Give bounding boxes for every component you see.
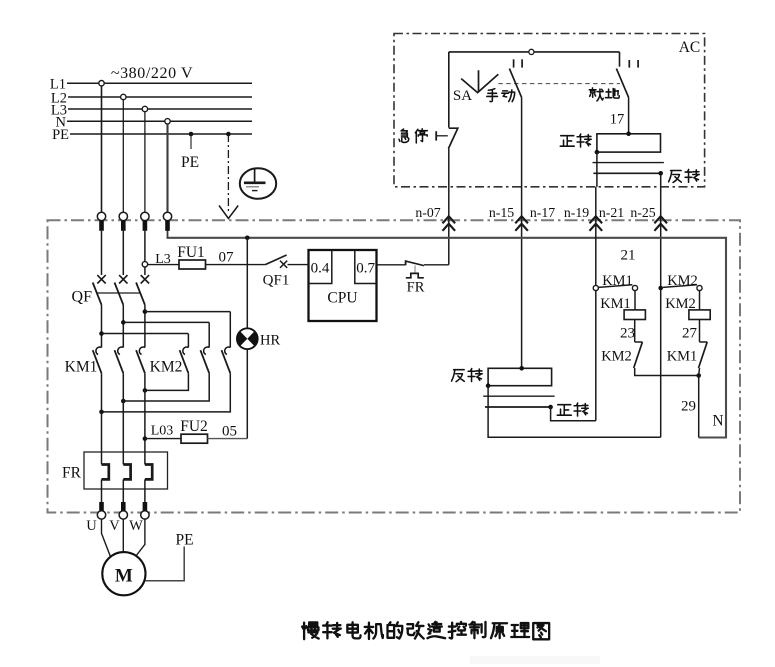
fuse FU1 [179,260,206,269]
wire KM2a out to phase3 [145,373,189,390]
wire 17 [628,97,630,133]
thermal contact FR blade [406,261,424,265]
label 反转 (lower) [452,370,465,382]
svg-text:W: W [129,518,143,534]
svg-text:~380/220 V: ~380/220 V [111,65,193,82]
wire PE bus [70,133,252,135]
wire KM2b out to phase2 [123,373,209,401]
svg-text:KM2: KM2 [665,296,696,312]
wire coil KM1 to 23 [634,320,636,343]
contact 就地 corner wire [619,52,621,67]
linkage SA dashed [498,83,620,85]
svg-text:QF: QF [72,289,93,306]
svg-text:SA: SA [453,88,472,104]
wire 29 down [698,376,700,438]
svg-text:KM2: KM2 [601,349,632,365]
svg-text:FU1: FU1 [177,244,205,261]
svg-text:L03: L03 [151,424,174,439]
wire N to HR lamp [246,238,248,328]
svg-text:n-21: n-21 [599,205,624,220]
control box AC (dash-dot) [394,34,705,187]
wire L03 to FU2 [145,438,181,440]
lamp HR [237,328,258,349]
node n-15 to 反转 box [519,366,524,371]
svg-text:AC: AC [679,39,701,56]
svg-text:FU2: FU2 [180,418,208,435]
svg-text:27: 27 [682,326,698,342]
svg-text:0.7: 0.7 [356,261,375,277]
relay KM1 aux contact [593,285,598,290]
svg-text:n-25: n-25 [630,205,655,220]
emergency stop 急停 actuator [435,131,437,140]
title 慢转电机的改造控制原理图 [302,622,318,639]
wire box drop n-21 [596,152,598,187]
CPU output cell 0.7 [355,250,377,284]
svg-text:FR: FR [62,465,82,482]
wire L3 to FU1 [148,264,179,266]
node box bottom-left [595,150,600,155]
drum contact 反转 coil box [488,368,551,385]
terminal chevron n-07 [443,216,456,231]
wire phase1 to FR box [101,373,103,452]
svg-text:CPU: CPU [327,290,357,307]
svg-text:KM2: KM2 [150,359,183,376]
node L03 tap [143,436,148,441]
node 17 to box [626,132,631,137]
CPU U1 box [309,250,377,321]
terminals at top boundary [97,212,105,220]
svg-text:U: U [86,518,97,534]
thermal overload FR heaters [101,452,103,465]
wire QF1 to CPU [288,264,309,266]
wire L2 drop [122,100,124,213]
node N tap [165,119,170,124]
svg-text:PE: PE [52,127,69,143]
svg-text:21: 21 [621,248,636,264]
contactor KM2 main contact b [208,322,210,347]
breaker QF1 cross [280,261,287,268]
fuse FU2 [181,434,208,443]
wire manual drop n-15 [521,97,523,368]
wire aux to coil KM1 [634,291,636,310]
svg-text:n-15: n-15 [489,205,514,220]
relay coil KM1 [624,310,645,320]
wire coil KM2 to 27 [699,320,701,343]
wire W to motor [136,519,145,555]
drum contact 正转 bar upper [483,395,554,397]
earth symbol [240,168,276,199]
wire phase3 to FR box [144,373,146,452]
svg-text:05: 05 [222,424,237,440]
node L1 tap [99,81,104,86]
contact 就地 fixed ticks [628,60,630,68]
label 正转 (AC) [560,136,574,147]
wire N control bus [167,238,727,438]
contact 手动 blade [509,69,521,98]
drum contact 反转 (AC) bar lower [593,172,661,174]
node L3 tap for FU1 [142,262,147,267]
wire aux to coil KM2 [699,291,701,310]
svg-text:n-19: n-19 [564,205,589,220]
svg-text:PE: PE [175,532,193,549]
emergency stop 急停 blade [448,128,457,148]
faint watermark [470,656,600,664]
svg-text:17: 17 [610,112,625,128]
svg-text:0.4: 0.4 [311,261,330,277]
wire L3 drop [144,112,146,213]
contactor KM2 main contact c [229,312,231,348]
terminal chevron n-15 [515,216,528,231]
wire PE stub [190,134,192,149]
label 正转 (lower) [557,405,571,416]
svg-text:n-17: n-17 [530,205,555,220]
wire N corner from drop [167,212,169,238]
wire motor PE [145,547,184,581]
node on AC rail [529,49,534,54]
wire 正转 to n-21 [551,407,596,421]
svg-text:n-07: n-07 [415,205,440,220]
emergency stop 急停 wire top [448,52,450,128]
terminal chevron n-25 [654,216,667,231]
svg-text:V: V [109,518,120,534]
svg-text:FR: FR [407,280,425,296]
wire jumper L2 to KM2b [121,320,126,325]
wire KM1NC join [698,368,701,376]
wire 反转 to n-25 rail [488,386,661,438]
wire N bus top [67,120,252,122]
node PE tap 2 [226,132,231,137]
selector switch SA handle [461,70,498,92]
wire bar drop n-25 [660,173,662,437]
wire n-21 drop [595,187,597,421]
wire FR to n-07 [424,264,449,266]
node n-25 to aux KM2 [658,286,663,291]
wire KM2NC out [635,368,699,376]
wire L3 bus [68,108,252,110]
wire FU2 to HR [208,438,248,440]
node L3 tap [142,106,147,111]
svg-text:N: N [712,413,723,430]
svg-text:KM1: KM1 [600,296,631,312]
thermal contact FR stem [414,266,416,274]
wire KM2c out to phase1 [102,373,231,412]
contactor KM2 main contact a [187,334,189,348]
wire CPU to FR [377,264,406,266]
svg-text:KM1: KM1 [65,359,98,376]
label 反转 (AC) [669,171,682,183]
svg-text:29: 29 [681,399,696,415]
node PE tap 1 [189,132,194,137]
svg-text:KM2: KM2 [667,273,698,289]
breaker QF1 blade [265,255,286,265]
wire U to motor [102,519,111,556]
CPU input cell 0.4 [309,250,332,284]
wire L1 drop [101,86,103,213]
enclosure boundary (dash-dot box) [48,220,741,512]
thermal contact FR tick [405,260,407,265]
terminal chevron n-21 [590,216,603,231]
contact 手动 fixed ticks [513,59,515,67]
label 手动 (manual) [487,89,498,102]
drum contact 反转 (AC) bar upper [593,162,664,164]
wire PE dash-dot drop [227,134,229,214]
label 就地 (local) [589,88,603,101]
contact KM1 NC [700,341,708,343]
wire jumper L1 to KM2a [99,331,104,336]
wire emergency drop n-07 [448,149,450,265]
thermal contact FR element [406,273,424,277]
svg-text:07: 07 [219,250,235,266]
node N to HR [245,236,250,241]
wire N drop [166,124,168,212]
drum contact 正转 (AC) coil box [597,134,661,152]
svg-text:KM1: KM1 [667,349,698,365]
wire L1 bus [67,82,252,84]
drum contact 正转 bar lower [485,406,551,408]
wire phase2 to FR box [122,373,124,452]
node 正转 bar [548,405,553,410]
wire FU1 to QF1 [206,264,266,266]
relay coil KM2 [689,310,710,320]
svg-text:HR: HR [260,333,280,349]
arrow PE to enclosure [219,206,238,219]
contact KM2 NC [635,341,643,343]
wire AC top rail [449,51,620,53]
node branch join 29 [696,373,701,378]
svg-text:KM1: KM1 [602,273,633,289]
node 反转 box bottom-left [486,383,491,388]
thermal overload FR box [84,452,168,489]
wire V to motor [122,519,124,552]
terminals at bottom boundary [99,502,104,512]
contact 就地 blade [616,69,628,98]
svg-text:23: 23 [620,326,635,342]
svg-text:M: M [115,566,133,587]
breaker QF poles [101,231,103,275]
wire HR to FU2 [246,349,248,439]
relay KM2 aux contact [663,285,697,288]
svg-text:QF1: QF1 [263,273,290,289]
wire jumper L3 to KM2c [143,309,148,314]
contactor KM1 main contacts [101,305,103,348]
wire L2 bus [68,96,252,98]
motor M1 [102,552,145,595]
node 反转 bar [658,171,663,176]
svg-text:PE: PE [181,154,199,171]
breaker QF linkage [96,292,141,294]
node L2 tap [121,94,126,99]
label 急停 (emergency stop) [399,129,409,142]
